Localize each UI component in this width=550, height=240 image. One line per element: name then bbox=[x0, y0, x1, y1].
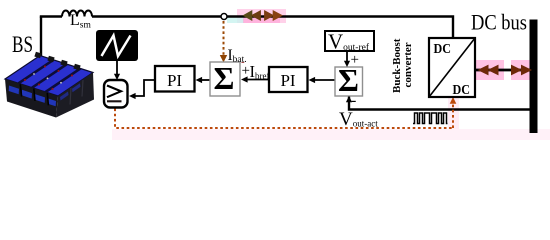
svg-text:BS: BS bbox=[12, 32, 33, 57]
svg-text:DC: DC bbox=[434, 42, 452, 57]
svg-text:Σ: Σ bbox=[214, 60, 235, 96]
svg-text:PI: PI bbox=[167, 71, 182, 90]
svg-text:-: - bbox=[351, 92, 356, 109]
svg-text:PI: PI bbox=[280, 71, 295, 90]
svg-text:+: + bbox=[351, 52, 359, 68]
svg-text:DC: DC bbox=[453, 83, 471, 98]
svg-text:converter: converter bbox=[402, 42, 414, 87]
svg-text:DC bus: DC bus bbox=[471, 10, 527, 35]
